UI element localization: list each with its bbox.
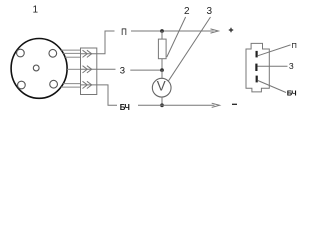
junction dot P-resistor <box>160 29 164 33</box>
svg-text:2: 2 <box>184 6 190 17</box>
wire sensor to block row1c <box>65 56 80 58</box>
svg-text:БЧ: БЧ <box>287 88 297 97</box>
svg-text:V: V <box>157 79 166 94</box>
wire BC riser <box>97 85 117 105</box>
sensor center pin <box>33 65 39 71</box>
sensor pin top-left <box>17 49 25 57</box>
sensor pin top-right <box>49 49 57 57</box>
junction dot Z <box>160 68 164 72</box>
arrow BC <box>212 103 220 107</box>
resistor lead top <box>161 31 163 39</box>
wire sensor to block row3a <box>63 83 80 85</box>
leader line 2 <box>167 17 186 57</box>
block contact row3 chevron <box>83 81 92 88</box>
block contact row2 wire <box>81 68 97 70</box>
wire P main <box>131 30 214 32</box>
svg-text:З: З <box>120 66 125 76</box>
junction dot BC <box>160 103 164 107</box>
sensor pin bottom-left <box>18 81 26 89</box>
leader line 3 <box>169 17 211 81</box>
wire sensor to block row1a <box>61 49 80 51</box>
block contact row3 wire <box>81 84 97 86</box>
wire BC main <box>138 104 215 106</box>
wire sensor to block row2 <box>67 68 80 70</box>
arrow P <box>211 29 219 33</box>
connector pin BC <box>256 76 258 83</box>
block contact row1 chevron <box>83 50 92 57</box>
sensor body (item 1) <box>11 39 67 99</box>
right connector body <box>246 43 269 92</box>
connector pin Z <box>255 64 257 71</box>
wire Z to junction <box>130 69 162 71</box>
voltmeter stem bottom <box>161 97 163 105</box>
wire sensor to block row1b <box>63 52 80 54</box>
svg-text:БЧ: БЧ <box>120 103 130 112</box>
block contact row2 chevron <box>83 66 92 73</box>
resistor R (item 2) <box>158 39 166 59</box>
connector block <box>81 48 97 95</box>
svg-text:П: П <box>292 41 297 50</box>
resistor lead bottom <box>161 59 163 70</box>
plus sign <box>229 28 233 32</box>
minus sign <box>232 103 237 105</box>
voltmeter V (item 3) <box>152 78 171 97</box>
wire P riser <box>97 31 115 54</box>
connector pin P <box>256 51 258 58</box>
wire sensor to block row3b <box>61 86 81 88</box>
svg-text:1: 1 <box>33 5 39 16</box>
svg-text:3: 3 <box>207 6 213 17</box>
leader pin BC <box>258 81 286 93</box>
voltmeter stem top <box>161 70 163 78</box>
svg-text:З: З <box>289 62 294 71</box>
block contact row1 wire <box>81 53 97 55</box>
leader pin P <box>258 45 291 56</box>
svg-text:П: П <box>121 26 127 37</box>
sensor pin bottom-right <box>50 80 58 88</box>
leader pin Z <box>258 65 288 67</box>
wire Z from block <box>97 68 116 70</box>
